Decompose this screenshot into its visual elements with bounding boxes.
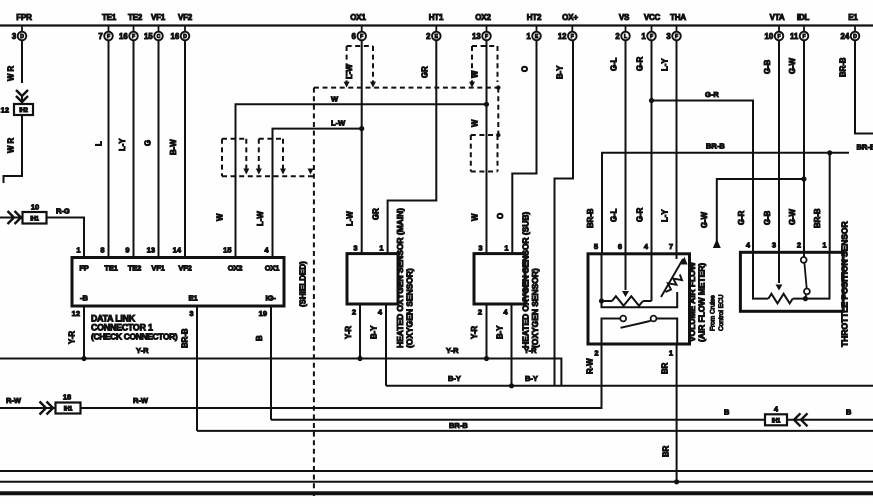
svg-text:Y-R: Y-R — [68, 331, 77, 344]
svg-text:BR-B: BR-B — [857, 143, 873, 152]
svg-text:7: 7 — [669, 242, 673, 251]
svg-text:G-R: G-R — [705, 90, 719, 99]
svg-text:B: B — [846, 408, 852, 417]
svg-text:IDL: IDL — [797, 13, 810, 22]
svg-text:BR-B: BR-B — [813, 208, 822, 228]
svg-text:W R: W R — [7, 65, 16, 81]
svg-text:3: 3 — [189, 309, 193, 318]
svg-text:L-W: L-W — [331, 119, 346, 128]
svg-text:G-R: G-R — [636, 56, 645, 71]
svg-text:2: 2 — [478, 308, 482, 317]
svg-text:2: 2 — [594, 349, 598, 358]
svg-text:VF2: VF2 — [178, 264, 191, 273]
svg-text:G: G — [144, 140, 153, 146]
svg-text:VF1: VF1 — [151, 13, 166, 22]
svg-text:15: 15 — [223, 246, 231, 255]
svg-text:B-Y: B-Y — [556, 65, 565, 79]
svg-text:B-Y: B-Y — [448, 374, 461, 383]
svg-text:6: 6 — [618, 242, 622, 251]
svg-text:OX1: OX1 — [350, 13, 366, 22]
svg-text:(OXYGEN SENSOR): (OXYGEN SENSOR) — [530, 268, 540, 348]
svg-text:12: 12 — [1, 106, 9, 115]
svg-text:B: B — [724, 408, 730, 417]
svg-text:THA: THA — [670, 13, 686, 22]
svg-text:Y-R: Y-R — [344, 326, 353, 339]
svg-text:OX2: OX2 — [475, 13, 491, 22]
svg-text:W: W — [216, 213, 225, 221]
svg-text:Y-R: Y-R — [136, 346, 149, 355]
svg-text:15: 15 — [144, 32, 153, 41]
svg-text:F: F — [107, 34, 110, 40]
svg-text:3: 3 — [12, 32, 17, 41]
svg-text:3: 3 — [353, 244, 357, 253]
svg-text:1: 1 — [669, 349, 673, 358]
svg-text:1: 1 — [526, 32, 531, 41]
svg-text:W: W — [471, 213, 480, 221]
svg-text:E1: E1 — [848, 13, 858, 22]
svg-text:14: 14 — [173, 246, 182, 255]
svg-text:L-W: L-W — [345, 64, 354, 79]
svg-text:OX+: OX+ — [562, 13, 578, 22]
svg-text:Y-R: Y-R — [470, 326, 479, 339]
svg-text:10: 10 — [765, 32, 774, 41]
svg-text:(AIR FLOW METER): (AIR FLOW METER) — [697, 263, 707, 342]
svg-text:R-G: R-G — [56, 207, 70, 216]
svg-text:TE1: TE1 — [104, 264, 117, 273]
svg-text:(OXYGEN SENSOR): (OXYGEN SENSOR) — [405, 268, 415, 348]
svg-text:3: 3 — [478, 244, 482, 253]
svg-text:3: 3 — [666, 32, 671, 41]
svg-text:12: 12 — [558, 32, 567, 41]
svg-text:G-R: G-R — [737, 210, 746, 225]
svg-text:1: 1 — [504, 244, 508, 253]
svg-text:IH1: IH1 — [772, 418, 781, 424]
svg-text:5: 5 — [594, 242, 598, 251]
svg-text:8: 8 — [100, 246, 104, 255]
svg-text:3: 3 — [772, 241, 776, 250]
svg-text:16: 16 — [119, 32, 128, 41]
svg-text:W: W — [471, 70, 480, 78]
svg-text:1: 1 — [822, 241, 826, 250]
svg-text:D: D — [853, 34, 857, 40]
svg-text:R-W: R-W — [133, 396, 149, 405]
svg-text:G-W: G-W — [788, 208, 797, 225]
svg-text:W: W — [331, 95, 339, 104]
svg-text:HT2: HT2 — [527, 13, 542, 22]
svg-text:IG-: IG- — [266, 294, 277, 303]
svg-text:9: 9 — [125, 246, 129, 255]
svg-text:L-W: L-W — [346, 211, 355, 226]
svg-text:Y-R: Y-R — [446, 346, 459, 355]
svg-text:B-Y: B-Y — [370, 325, 379, 339]
svg-text:BR-B: BR-B — [449, 421, 468, 430]
svg-text:GR: GR — [372, 208, 381, 220]
svg-text:7: 7 — [98, 32, 102, 41]
svg-text:OX1: OX1 — [265, 264, 279, 273]
svg-text:B: B — [255, 335, 264, 341]
svg-text:G-W: G-W — [788, 57, 797, 74]
svg-text:TE2: TE2 — [128, 264, 141, 273]
svg-text:VF2: VF2 — [178, 13, 193, 22]
svg-text:O: O — [521, 66, 530, 72]
svg-text:D: D — [183, 34, 187, 40]
svg-text:13: 13 — [472, 32, 481, 41]
svg-text:VTA: VTA — [770, 13, 785, 22]
svg-text:11: 11 — [790, 32, 799, 41]
svg-text:2: 2 — [426, 32, 431, 41]
svg-text:2: 2 — [352, 308, 356, 317]
svg-text:10: 10 — [31, 203, 39, 212]
svg-text:E1: E1 — [189, 294, 198, 303]
svg-text:VF1: VF1 — [151, 264, 164, 273]
svg-text:B-Y: B-Y — [525, 374, 538, 383]
svg-text:2: 2 — [615, 32, 620, 41]
svg-text:HT1: HT1 — [429, 13, 444, 22]
svg-text:L-W: L-W — [256, 211, 265, 226]
svg-text:VS: VS — [619, 13, 630, 22]
svg-text:Control ECU: Control ECU — [718, 294, 725, 331]
svg-text:From Cruise: From Cruise — [710, 295, 717, 331]
svg-text:1: 1 — [641, 32, 646, 41]
svg-text:2: 2 — [797, 241, 801, 250]
svg-text:HEATED OXYGEN SENSOR (SUB): HEATED OXYGEN SENSOR (SUB) — [521, 212, 531, 348]
svg-text:16: 16 — [171, 32, 180, 41]
svg-text:D: D — [20, 34, 24, 40]
svg-text:IH1: IH1 — [64, 407, 73, 413]
svg-text:R-W: R-W — [586, 358, 595, 374]
svg-text:F: F — [485, 34, 488, 40]
svg-text:TE2: TE2 — [128, 13, 143, 22]
svg-text:G-R: G-R — [636, 207, 645, 222]
svg-text:L-Y: L-Y — [661, 58, 670, 71]
svg-text:L-Y: L-Y — [661, 209, 670, 222]
svg-text:BR: BR — [661, 362, 670, 374]
svg-text:F: F — [777, 34, 780, 40]
svg-text:VOLUME AIR FLOW: VOLUME AIR FLOW — [687, 261, 697, 342]
svg-text:F: F — [802, 34, 805, 40]
svg-text:R-W: R-W — [6, 396, 22, 405]
svg-text:L: L — [95, 141, 104, 146]
svg-text:FP: FP — [79, 264, 88, 273]
svg-text:B-Y: B-Y — [496, 325, 505, 339]
svg-text:F: F — [132, 34, 135, 40]
svg-text:BR-B: BR-B — [706, 142, 725, 151]
svg-text:24: 24 — [841, 32, 850, 41]
svg-text:VCC: VCC — [644, 13, 661, 22]
svg-text:G-B: G-B — [763, 210, 772, 225]
svg-text:BR-B: BR-B — [181, 328, 190, 348]
svg-text:1: 1 — [76, 246, 80, 255]
svg-text:F: F — [360, 34, 363, 40]
svg-text:13: 13 — [147, 246, 155, 255]
svg-text:FPR: FPR — [16, 13, 32, 22]
svg-text:BR: BR — [662, 445, 671, 457]
svg-text:IH1: IH1 — [30, 217, 39, 223]
svg-text:(CHECK CONNECTOR): (CHECK CONNECTOR) — [91, 332, 178, 342]
svg-text:C: C — [157, 34, 161, 40]
svg-text:HEATED OXYGEN SENSOR (MAIN): HEATED OXYGEN SENSOR (MAIN) — [395, 208, 405, 348]
svg-text:BR-B: BR-B — [839, 57, 848, 77]
svg-text:L: L — [624, 34, 627, 40]
svg-text:19: 19 — [259, 309, 267, 318]
svg-text:BR-B: BR-B — [586, 208, 595, 228]
svg-text:THROTTLE POSITION SENSOR: THROTTLE POSITION SENSOR — [840, 221, 850, 347]
svg-text:G-B: G-B — [763, 59, 772, 74]
svg-text:1: 1 — [379, 244, 383, 253]
svg-text:W: W — [471, 119, 480, 127]
svg-text:F: F — [571, 34, 574, 40]
svg-text:6: 6 — [352, 32, 357, 41]
svg-text:-B: -B — [80, 294, 88, 303]
svg-text:B-W: B-W — [169, 139, 178, 155]
svg-text:TE1: TE1 — [102, 13, 117, 22]
svg-text:L-Y: L-Y — [118, 138, 127, 151]
svg-text:G-W: G-W — [700, 211, 709, 228]
svg-text:G-L: G-L — [610, 57, 619, 71]
svg-text:(SHIELDED): (SHIELDED) — [299, 261, 308, 307]
svg-text:G-L: G-L — [610, 208, 619, 222]
svg-text:F: F — [650, 34, 653, 40]
svg-text:IH2: IH2 — [19, 108, 28, 114]
svg-text:O: O — [496, 213, 505, 219]
svg-text:W R: W R — [7, 137, 16, 153]
svg-text:GR: GR — [421, 66, 430, 78]
svg-text:OX2: OX2 — [228, 264, 242, 273]
svg-text:F: F — [675, 34, 678, 40]
svg-text:12: 12 — [72, 309, 80, 318]
svg-text:18: 18 — [63, 393, 71, 402]
